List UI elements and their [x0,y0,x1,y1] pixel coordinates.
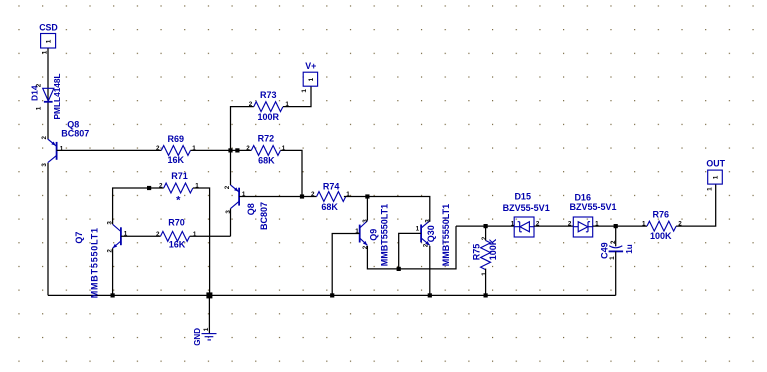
svg-text:R72: R72 [258,133,275,143]
svg-text:1: 1 [481,272,488,276]
junction R75 top [484,224,488,228]
resistor R74 [311,181,350,212]
wire Q7 base to R70 [121,235,161,237]
svg-text:1: 1 [712,175,719,179]
junction Q7 emitter on bus [111,293,115,297]
svg-text:2: 2 [41,136,48,140]
svg-text:R69: R69 [168,134,185,144]
svg-text:1: 1 [203,327,210,331]
svg-text:1: 1 [46,39,53,43]
wire D15 to D16 [534,225,573,227]
wire Q8 base to R69 [57,149,162,151]
svg-text:R74: R74 [323,181,340,191]
junction R72 drop on R74 row [300,194,304,198]
transistor Q30 MMBT5550LT1 [416,204,451,266]
wire R75 bottom to ground bus [485,269,487,296]
wire Q9 base to ground bus [332,234,360,296]
svg-text:2: 2 [568,221,572,228]
wire GND drop [208,295,210,333]
power connector V+ [301,61,318,93]
svg-text:16K: 16K [169,239,186,249]
transistor Q7 MMBT5550LT1 [74,221,128,299]
svg-text:Q30: Q30 [426,225,436,242]
svg-text:MMBT5550LT1: MMBT5550LT1 [379,204,389,266]
svg-text:D15: D15 [514,192,531,202]
svg-text:CSD: CSD [39,22,58,32]
junction Q30 emitter on bus [428,293,432,297]
wire CSD to Q8 emitter [47,48,49,139]
svg-text:2: 2 [36,83,43,87]
svg-text:68K: 68K [258,155,275,165]
svg-text:68K: 68K [321,202,338,212]
svg-text:1: 1 [706,187,713,191]
svg-text:R73: R73 [260,90,277,100]
diode D14 [29,73,61,119]
junction Q30 base on emitter row [397,267,401,271]
svg-text:3: 3 [425,219,432,223]
diode D16 BZV55-5V1 [568,193,617,238]
svg-text:1: 1 [511,221,515,228]
resistor R73 [249,90,290,122]
svg-text:2: 2 [156,231,160,238]
connector CSD [39,22,58,54]
transistor Q9 MMBT5550LT1 [355,204,389,266]
svg-text:1: 1 [642,221,646,228]
svg-text:BZV55-5V1: BZV55-5V1 [503,203,550,213]
svg-text:2: 2 [423,243,430,247]
svg-text:2: 2 [311,191,315,198]
svg-text:Q7: Q7 [74,232,84,244]
svg-text:1: 1 [60,145,64,152]
wire output row to D15 [456,225,514,227]
svg-text:R75: R75 [472,244,482,261]
svg-text:BC807: BC807 [61,129,89,139]
wire C49 bottom to ground bus [615,251,617,295]
svg-text:V+: V+ [305,61,316,71]
resistor R69 [156,134,196,165]
resistor R72 [246,133,286,165]
ground GND [193,327,217,346]
resistor R75 [472,236,499,276]
wire Q8 middle base to R74 [239,196,317,198]
svg-text:Q9: Q9 [369,229,379,241]
wire Q9 collector drop [366,197,368,221]
wire R69 to R72 [190,149,251,151]
junction C49 top [614,224,618,228]
wire C49 top stub [615,226,617,246]
svg-text:3: 3 [362,219,369,223]
svg-text:100R: 100R [258,112,280,122]
diode D15 BZV55-5V1 [503,192,550,237]
svg-text:BZV55-5V1: BZV55-5V1 [569,202,616,212]
wire R74 to Q30 collector [344,197,430,222]
wire Q7 emitter down to ground bus [112,248,114,295]
svg-text:1: 1 [308,77,315,81]
junction GND on bus [206,292,212,298]
ground bus wire [48,294,616,296]
svg-text:Q8: Q8 [246,203,256,215]
svg-text:2: 2 [481,236,488,240]
resistor R70 [156,218,197,250]
svg-text:16K: 16K [168,155,185,165]
svg-text:2: 2 [224,185,231,189]
junction Q9 collector on R74 row [365,194,369,198]
svg-text:2: 2 [246,145,250,152]
svg-text:R76: R76 [653,210,670,220]
svg-text:BC807: BC807 [259,202,269,230]
svg-text:MMBT5550LT1: MMBT5550LT1 [89,227,99,298]
capacitor C49 [600,240,634,260]
wire junction column to Q8 middle emitter [230,150,232,185]
svg-text:C49: C49 [600,242,610,259]
svg-text:100K: 100K [650,231,672,241]
svg-text:MMBT5550LT1: MMBT5550LT1 [441,204,451,266]
wire Q7 collector up to R71 row [113,188,164,224]
junction R75 bottom on bus [484,293,488,297]
svg-text:PMLL4148L: PMLL4148L [52,73,62,119]
connector OUT [706,159,725,191]
wire R76 to OUT [676,184,716,226]
svg-text:*: * [176,195,181,207]
svg-text:3: 3 [41,163,48,167]
transistor Q8 BC807 (left) [41,119,89,166]
svg-text:R71: R71 [171,171,188,181]
wire R72 right down to R74 row [280,150,302,196]
wire Q9 emitter to output row [367,226,456,269]
junction Q9 base on bus [330,293,334,297]
junction on R71 row [147,186,151,190]
svg-text:2: 2 [249,101,253,108]
svg-text:1: 1 [36,106,43,110]
wire R73 column [231,107,254,151]
svg-text:100K: 100K [488,238,498,260]
svg-text:2: 2 [156,145,160,152]
svg-text:1u: 1u [625,244,634,254]
resistor R76 [642,210,682,242]
svg-text:R70: R70 [168,218,185,228]
wire R71 right down to ground bus [193,188,210,295]
resistor R71 [159,171,199,206]
svg-text:2: 2 [159,183,163,190]
wire R70 right up to Q8 middle collector [190,235,231,237]
wire Q8 collector down to ground bus [47,163,49,295]
wire D16 to R76 [593,225,647,227]
wire Q30 emitter down to ground bus [429,246,431,296]
transistor Q8 BC807 (middle) [224,185,269,230]
junction at base row and R73 column [228,148,232,152]
wire Q30 base down to emitter row [399,233,421,269]
svg-text:GND: GND [193,328,202,346]
svg-text:1: 1 [416,225,420,232]
svg-text:1: 1 [301,89,308,93]
svg-text:OUT: OUT [706,159,725,169]
junction dot right of R73 column [235,148,239,152]
wire R75 top stub [485,226,487,240]
wire Q8 middle collector down to R70 row [230,209,232,237]
wire R73 to V+ [283,87,311,107]
